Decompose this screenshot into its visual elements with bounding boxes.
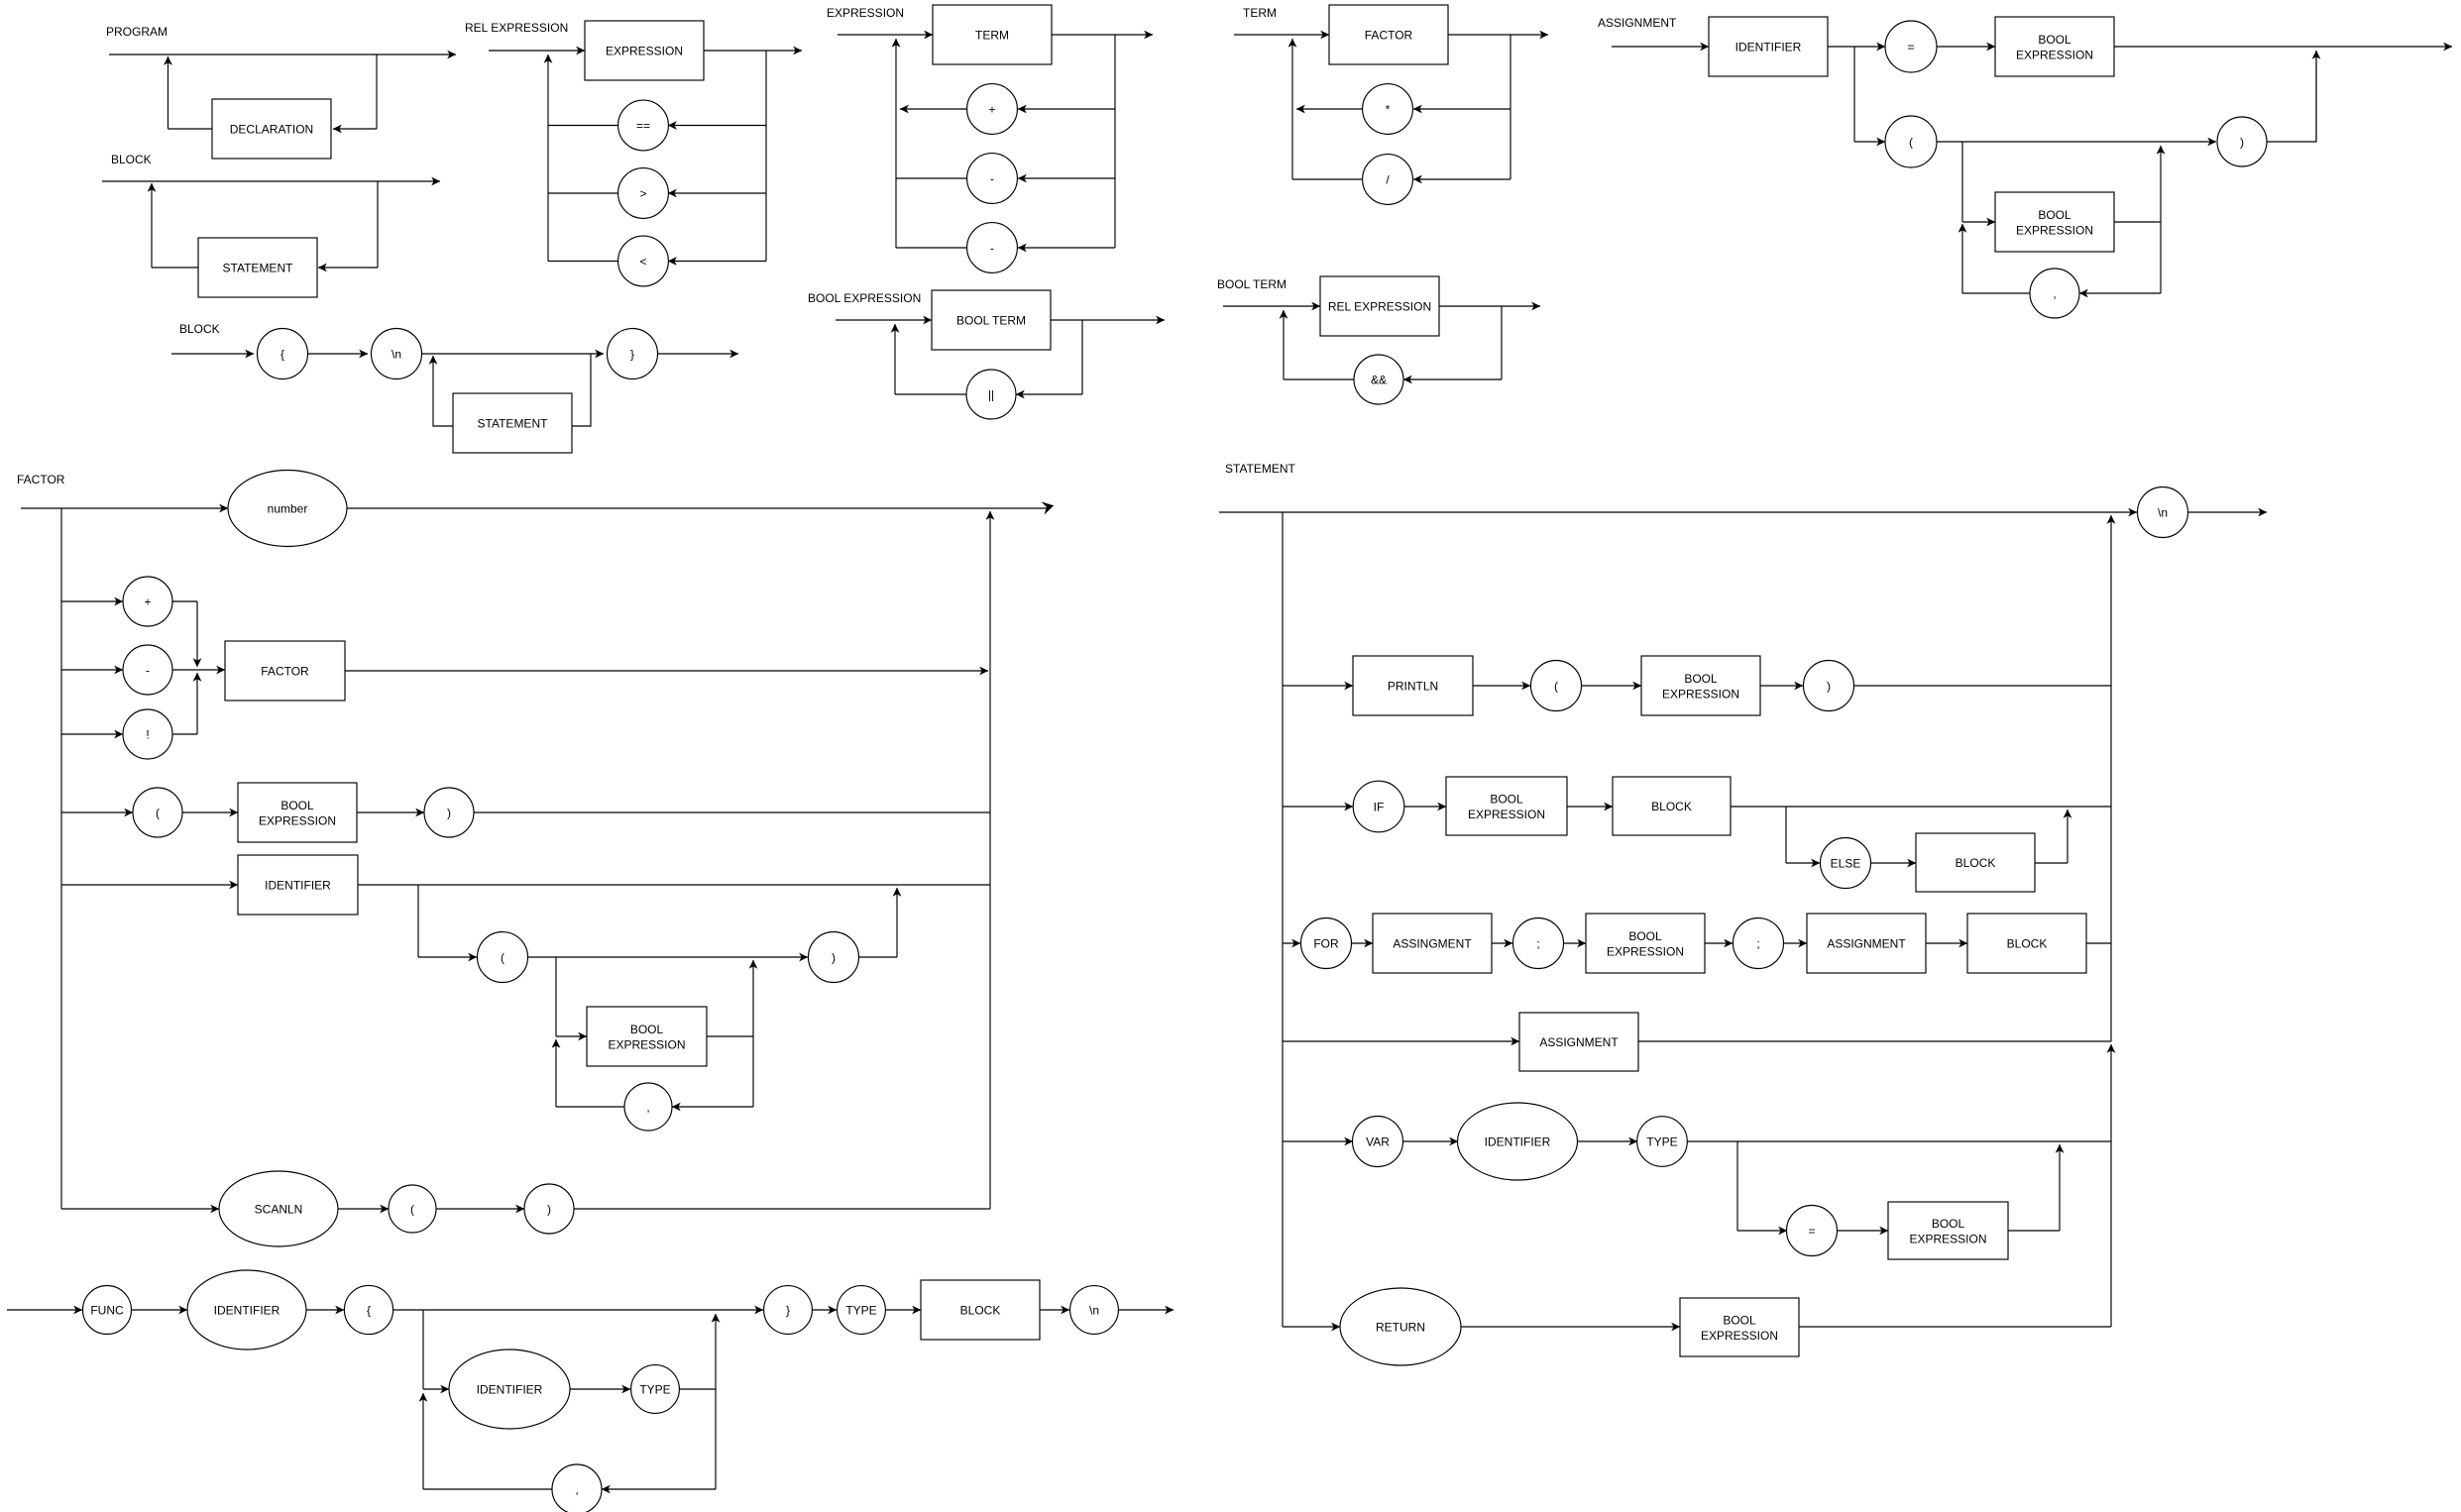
wire into ( [1854, 141, 1885, 143]
wire into second - [1018, 247, 1115, 249]
box REL EXPRESSION [1320, 276, 1439, 336]
box BOOL EXPRESSION [1995, 192, 2114, 252]
entry wire [838, 34, 933, 36]
merge wire up [715, 1314, 717, 1389]
terminal ellipse number [228, 471, 347, 547]
exit wire ASSIGNMENT row [1638, 1040, 2111, 1042]
terminal circle ( (scanln) [389, 1185, 436, 1233]
svg-text:BLOCK: BLOCK [179, 322, 220, 336]
terminal circle ! [123, 709, 172, 759]
wire ) right [859, 956, 898, 958]
svg-text:BOOL TERM: BOOL TERM [956, 313, 1026, 327]
svg-text:EXPRESSION: EXPRESSION [606, 44, 683, 57]
svg-text:{: { [367, 1303, 371, 1317]
terminal circle ( [133, 788, 182, 837]
loop wire up [1291, 39, 1293, 179]
terminal circle &lt; [618, 236, 669, 286]
branch wire down to = [1736, 1141, 1738, 1231]
terminal circle / [1363, 155, 1413, 205]
exit wire [1439, 305, 1540, 307]
loop wire up [1283, 310, 1285, 379]
wire into comma [672, 1106, 753, 1108]
wire + to merge [172, 600, 197, 602]
wire + to left [900, 108, 967, 110]
svg-text:): ) [447, 806, 451, 819]
loop wire up [151, 183, 153, 268]
svg-text:EXPRESSION: EXPRESSION [2016, 49, 2093, 62]
terminal circle ELSE [1821, 838, 1871, 889]
main wire [1219, 511, 2137, 513]
wire into = [1737, 1230, 1787, 1232]
box BOOL TERM [932, 290, 1051, 350]
terminal circle ) (scanln) [524, 1184, 574, 1234]
right branch wire down [765, 51, 767, 262]
exit wire [658, 353, 739, 355]
svg-text:BLOCK: BLOCK [2007, 936, 2048, 950]
loop wire down [752, 1036, 754, 1107]
svg-text:<: < [639, 255, 646, 269]
svg-text:FACTOR: FACTOR [1365, 28, 1413, 42]
merge wire up [2067, 810, 2069, 863]
terminal circle &amp;&amp; [1354, 355, 1403, 404]
loop wire left [152, 267, 198, 269]
loop wire left [423, 1488, 552, 1490]
svg-text:(: ( [156, 806, 160, 819]
loop wire left [1962, 292, 2030, 294]
svg-text:DECLARATION: DECLARATION [230, 122, 313, 136]
svg-text:(: ( [410, 1202, 414, 1216]
svg-text:;: ; [1536, 936, 1539, 950]
svg-text:STATEMENT: STATEMENT [478, 416, 549, 430]
exit wire [1448, 34, 1548, 36]
svg-text:,: , [2053, 286, 2056, 300]
svg-text:BOOL: BOOL [1490, 792, 1523, 806]
svg-text:): ) [2240, 135, 2244, 149]
terminal circle ; (first) [1513, 918, 1564, 969]
svg-text:}: } [630, 347, 634, 361]
wire box to right [2114, 221, 2161, 223]
box BLOCK [1916, 833, 2035, 892]
svg-text:*: * [1386, 102, 1391, 116]
terminal circle ) (println) [1804, 661, 1854, 711]
svg-text:number: number [268, 501, 308, 515]
box DECLARATION [212, 99, 331, 159]
merge wire up [2315, 51, 2317, 142]
svg-text:IDENTIFIER: IDENTIFIER [1485, 1134, 1551, 1148]
loop wire up [555, 1039, 557, 1107]
svg-text:BOOL: BOOL [280, 799, 314, 812]
wire into BOOL EXPRESSION [1564, 942, 1587, 944]
svg-text:||: || [988, 387, 994, 401]
svg-text:): ) [547, 1202, 551, 1216]
wire / to left [1292, 178, 1363, 180]
terminal circle ; (second) [1734, 918, 1784, 969]
svg-text:STATEMENT: STATEMENT [223, 261, 294, 274]
svg-text:BOOL: BOOL [1628, 929, 1662, 943]
box BLOCK [1967, 914, 2086, 973]
main wire BLOCK [102, 180, 440, 182]
svg-text:ASSIGNMENT: ASSIGNMENT [1598, 16, 1677, 30]
svg-text:=: = [1907, 40, 1914, 54]
box FACTOR [225, 641, 345, 701]
svg-text:ELSE: ELSE [1831, 856, 1861, 870]
right branch wire down [1114, 35, 1116, 248]
box IDENTIFIER [1709, 17, 1828, 76]
wire into IDENTIFIER [1403, 1140, 1459, 1142]
terminal circle TYPE [838, 1286, 886, 1335]
terminal circle ) (sub) [809, 932, 859, 983]
wire == to left [548, 125, 618, 127]
right branch wire down [1510, 35, 1511, 179]
entry wire [171, 353, 254, 355]
wire ( to ) [1937, 141, 2216, 143]
terminal ellipse IDENTIFIER [449, 1350, 570, 1429]
svg-text:-: - [990, 241, 994, 255]
exit wire SCANLN row [574, 1208, 990, 1210]
svg-text:;: ; [1756, 936, 1759, 950]
terminal circle TYPE (var) [1637, 1117, 1688, 1167]
svg-text:BOOL: BOOL [2038, 33, 2071, 47]
box PRINTLN [1353, 656, 1473, 715]
collector wire up [989, 511, 991, 1209]
wire into FACTOR [197, 669, 225, 671]
merge wire down [196, 601, 198, 667]
box EXPRESSION [585, 21, 704, 80]
box BLOCK [1613, 777, 1731, 835]
exit wire PRINTLN row [1854, 685, 2112, 687]
terminal circle } (func) [764, 1286, 813, 1335]
wire into TYPE [812, 1309, 837, 1311]
svg-text:REL EXPRESSION: REL EXPRESSION [465, 21, 568, 35]
wire into DECLARATION [333, 128, 377, 130]
branch wire down [417, 885, 419, 957]
wire into STATEMENT [318, 267, 378, 269]
loop wire down [715, 1389, 717, 1489]
branch wire down [377, 181, 379, 268]
svg-text:PROGRAM: PROGRAM [106, 25, 168, 39]
entry wire [7, 1309, 82, 1311]
svg-text:EXPRESSION: EXPRESSION [1468, 808, 1545, 821]
exit wire [704, 50, 802, 52]
svg-text:TYPE: TYPE [1646, 1134, 1677, 1148]
svg-text:ASSINGMENT: ASSINGMENT [1393, 936, 1472, 950]
svg-text:ASSIGNMENT: ASSIGNMENT [1539, 1035, 1619, 1049]
entry wire [1234, 34, 1329, 36]
entry wire [489, 50, 585, 52]
svg-text:\n: \n [1089, 1303, 1099, 1317]
wire into ASSIGNMENT [1283, 1040, 1519, 1042]
terminal circle - [123, 645, 172, 695]
loop wire left [556, 1106, 624, 1108]
wire into BLOCK [885, 1309, 921, 1311]
svg-text:>: > [639, 186, 646, 200]
box BOOL EXPRESSION [1446, 777, 1567, 835]
svg-text:EXPRESSION: EXPRESSION [1607, 945, 1684, 959]
svg-text:}: } [786, 1303, 790, 1317]
box BOOL EXPRESSION [1888, 1202, 2008, 1259]
exit wire up to ( row [2160, 146, 2162, 222]
terminal circle \n (func) [1070, 1286, 1119, 1335]
exit wire VAR row [1687, 1140, 2111, 1142]
svg-text:=: = [1808, 1224, 1815, 1238]
wire { to \n [308, 353, 369, 355]
entry wire [1612, 46, 1709, 48]
branch wire down inner [555, 957, 557, 1036]
wire - to merge [172, 669, 197, 671]
wire into ; [1492, 942, 1512, 944]
svg-text:STATEMENT: STATEMENT [1225, 462, 1296, 476]
wire into &lt; [668, 261, 766, 263]
trunk wire down [1282, 512, 1284, 1327]
exit wire FOR row [2086, 942, 2111, 944]
wire ! to merge [172, 733, 197, 735]
branch wire down inner [1961, 142, 1963, 222]
wire into VAR [1283, 1140, 1353, 1142]
svg-text:,: , [646, 1100, 649, 1114]
wire = to BOOL EXPRESSION [1937, 46, 1995, 48]
svg-text:): ) [1827, 679, 1831, 693]
terminal ellipse IDENTIFIER [1458, 1103, 1578, 1180]
branch wire down to ELSE [1785, 807, 1787, 863]
wire into ( [61, 811, 133, 813]
branch wire down [376, 54, 378, 129]
trunk wire down [60, 508, 62, 1209]
merge wire up [196, 673, 198, 734]
wire box right [2008, 1230, 2060, 1232]
box BOOL EXPRESSION [1680, 1298, 1799, 1356]
exit wire [2114, 46, 2452, 48]
terminal circle ( (println) [1531, 661, 1582, 711]
exit wire IDENTIFIER row [358, 884, 990, 886]
terminal circle { [258, 329, 308, 379]
wire into / [1413, 178, 1510, 180]
wire into = [1828, 46, 1885, 48]
svg-text:EXPRESSION: EXPRESSION [259, 814, 336, 828]
exit wire [2188, 511, 2268, 513]
loop wire up [168, 56, 169, 129]
wire into sub TYPE [570, 1388, 630, 1390]
wire - to left [896, 177, 967, 179]
wire into IF [1283, 806, 1353, 808]
exit wire [1118, 1309, 1174, 1311]
svg-text:TYPE: TYPE [845, 1303, 876, 1317]
wire into TYPE [1578, 1140, 1638, 1142]
svg-text:IDENTIFIER: IDENTIFIER [265, 878, 331, 892]
terminal circle ( (sub) [478, 932, 528, 983]
wire into &amp;&amp; [1403, 378, 1502, 380]
svg-text:BOOL: BOOL [630, 1023, 664, 1036]
svg-text:BOOL: BOOL [1684, 672, 1718, 686]
entry wire [836, 319, 932, 321]
box FACTOR [1329, 5, 1448, 64]
terminal ellipse IDENTIFIER [187, 1270, 306, 1350]
wire \n to } [422, 353, 605, 355]
box BOOL EXPRESSION [1586, 914, 1705, 973]
terminal circle ( [1885, 116, 1937, 167]
loop wire up [895, 39, 897, 248]
wire into == [668, 125, 766, 127]
wire ( to ) [528, 956, 809, 958]
wire into || [1016, 393, 1082, 395]
exit wire [1052, 34, 1153, 36]
svg-text:(: ( [501, 950, 504, 964]
svg-text:RETURN: RETURN [1376, 1320, 1425, 1334]
box ASSIGNMENT [1807, 914, 1926, 973]
wire box to right [707, 1035, 753, 1037]
wire &gt; to left [548, 192, 618, 194]
wire into sub IDENTIFIER [423, 1388, 449, 1390]
svg-text:TYPE: TYPE [639, 1382, 670, 1396]
wire BLOCK right [2035, 862, 2068, 864]
wire second - to left [896, 247, 967, 249]
wire into ASSINGMENT [1352, 942, 1374, 944]
terminal ellipse RETURN [1340, 1288, 1461, 1365]
terminal circle ) [2217, 117, 2267, 166]
wire into BOOL EXPRESSION [1404, 806, 1446, 808]
terminal circle - [967, 154, 1018, 204]
wire into BOOL EXPRESSION [1582, 685, 1642, 687]
terminal circle = (var) [1787, 1206, 1838, 1256]
wire into - [1018, 177, 1115, 179]
loop wire up [894, 324, 896, 394]
wire into BOOL EXPRESSION [1838, 1230, 1889, 1232]
wire into SCANLN [61, 1208, 219, 1210]
collector wire upper [2110, 515, 2112, 1041]
svg-text:BOOL TERM: BOOL TERM [1217, 277, 1286, 291]
wire into + [61, 600, 123, 602]
wire into ) [357, 811, 424, 813]
wire into ( [338, 1208, 389, 1210]
wire into ASSIGNMENT [1784, 942, 1808, 944]
wire into ( [1473, 685, 1530, 687]
exit wire IF row [1731, 806, 2111, 808]
svg-text:EXPRESSION: EXPRESSION [1909, 1233, 1986, 1246]
terminal circle ) [424, 788, 474, 837]
svg-text:BLOCK: BLOCK [960, 1303, 1001, 1317]
terminal circle IF [1353, 781, 1404, 832]
svg-text:BLOCK: BLOCK [111, 153, 152, 166]
exit wire ( row [474, 811, 990, 813]
svg-text:+: + [988, 102, 995, 116]
wire &amp;&amp; to left [1284, 378, 1354, 380]
svg-text:EXPRESSION: EXPRESSION [1701, 1329, 1778, 1343]
svg-text:+: + [144, 594, 151, 608]
svg-text:{: { [280, 347, 284, 361]
exit wire number row [347, 507, 1047, 509]
wire into * [1413, 108, 1510, 110]
collector wire lower [2110, 1044, 2112, 1327]
terminal circle VAR [1353, 1117, 1403, 1167]
wire into comma [602, 1488, 716, 1490]
wire TYPE right [679, 1388, 716, 1390]
wire into + [1018, 108, 1115, 110]
entry wire [1223, 305, 1320, 307]
box TERM [933, 5, 1052, 64]
terminal circle FOR [1301, 918, 1352, 969]
svg-text:EXPRESSION: EXPRESSION [2016, 224, 2093, 238]
svg-text:\n: \n [2158, 505, 2168, 519]
terminal circle == [618, 100, 669, 151]
terminal circle comma [2030, 269, 2079, 318]
wire * to left [1296, 108, 1363, 110]
loop wire left up [433, 356, 453, 426]
merge wire up [896, 888, 898, 957]
terminal circle } [608, 329, 658, 379]
exit wire [1051, 319, 1165, 321]
merge wire up [2059, 1144, 2061, 1231]
loop wire up [547, 54, 549, 262]
wire || to left [895, 393, 966, 395]
terminal circle { (func) [344, 1285, 392, 1334]
terminal circle comma (factor) [624, 1083, 672, 1131]
wire into FOR [1283, 942, 1300, 944]
svg-text:BOOL EXPRESSION: BOOL EXPRESSION [808, 291, 921, 305]
svg-text:(: ( [1554, 679, 1558, 693]
svg-text:VAR: VAR [1366, 1134, 1390, 1148]
svg-text:): ) [832, 950, 836, 964]
exit wire RETURN row [1799, 1326, 2111, 1328]
wire into ! [61, 733, 123, 735]
svg-text:!: ! [146, 727, 149, 741]
svg-text:EXPRESSION: EXPRESSION [1662, 688, 1739, 702]
terminal circle + [967, 84, 1018, 135]
svg-text:REL EXPRESSION: REL EXPRESSION [1328, 299, 1431, 313]
terminal circle \n (statement) [2138, 487, 2188, 538]
wire into ) [1760, 685, 1803, 687]
terminal circle - (second) [967, 223, 1018, 273]
svg-text:BLOCK: BLOCK [1956, 856, 1996, 870]
svg-text:TERM: TERM [1243, 6, 1277, 20]
svg-text:EXPRESSION: EXPRESSION [827, 6, 904, 20]
loop wire up [422, 1393, 424, 1489]
terminal circle + [123, 577, 172, 626]
wire into ) [436, 1208, 524, 1210]
box IDENTIFIER [238, 855, 358, 915]
wire into sub ( [418, 956, 477, 958]
loop wire right up [572, 354, 591, 426]
svg-text:==: == [636, 119, 650, 133]
wire into BOOL EXPRESSION [1461, 1326, 1680, 1328]
box BOOL EXPRESSION [587, 1007, 707, 1066]
wire into inner BOOL EXPRESSION [556, 1035, 587, 1037]
wire into &gt; [668, 192, 766, 194]
terminal circle = [1885, 21, 1937, 72]
svg-text:ASSIGNMENT: ASSIGNMENT [1827, 936, 1906, 950]
box ASSINGMENT [1373, 914, 1492, 973]
exit wire up [752, 960, 754, 1036]
right branch wire down [1501, 306, 1503, 379]
svg-text:TERM: TERM [975, 28, 1009, 42]
wire into BLOCK [1567, 806, 1613, 808]
wire into - [61, 669, 123, 671]
svg-text:IDENTIFIER: IDENTIFIER [477, 1382, 543, 1396]
main wire PROGRAM [109, 54, 456, 55]
loop wire up [1961, 224, 1963, 293]
wire into ELSE [1786, 862, 1820, 864]
loop wire left [168, 128, 213, 130]
svg-text:PRINTLN: PRINTLN [1388, 679, 1438, 693]
wire into \n [1040, 1309, 1069, 1311]
svg-text:IDENTIFIER: IDENTIFIER [214, 1303, 280, 1317]
svg-text:BLOCK: BLOCK [1651, 800, 1692, 813]
wire into RETURN [1283, 1326, 1340, 1328]
wire into comma [2079, 292, 2161, 294]
svg-text:FACTOR: FACTOR [261, 664, 309, 678]
svg-text:IF: IF [1374, 800, 1385, 813]
svg-text:BOOL: BOOL [1932, 1217, 1965, 1231]
wire ( to BOOL EXPRESSION [182, 811, 238, 813]
box STATEMENT [453, 393, 572, 453]
